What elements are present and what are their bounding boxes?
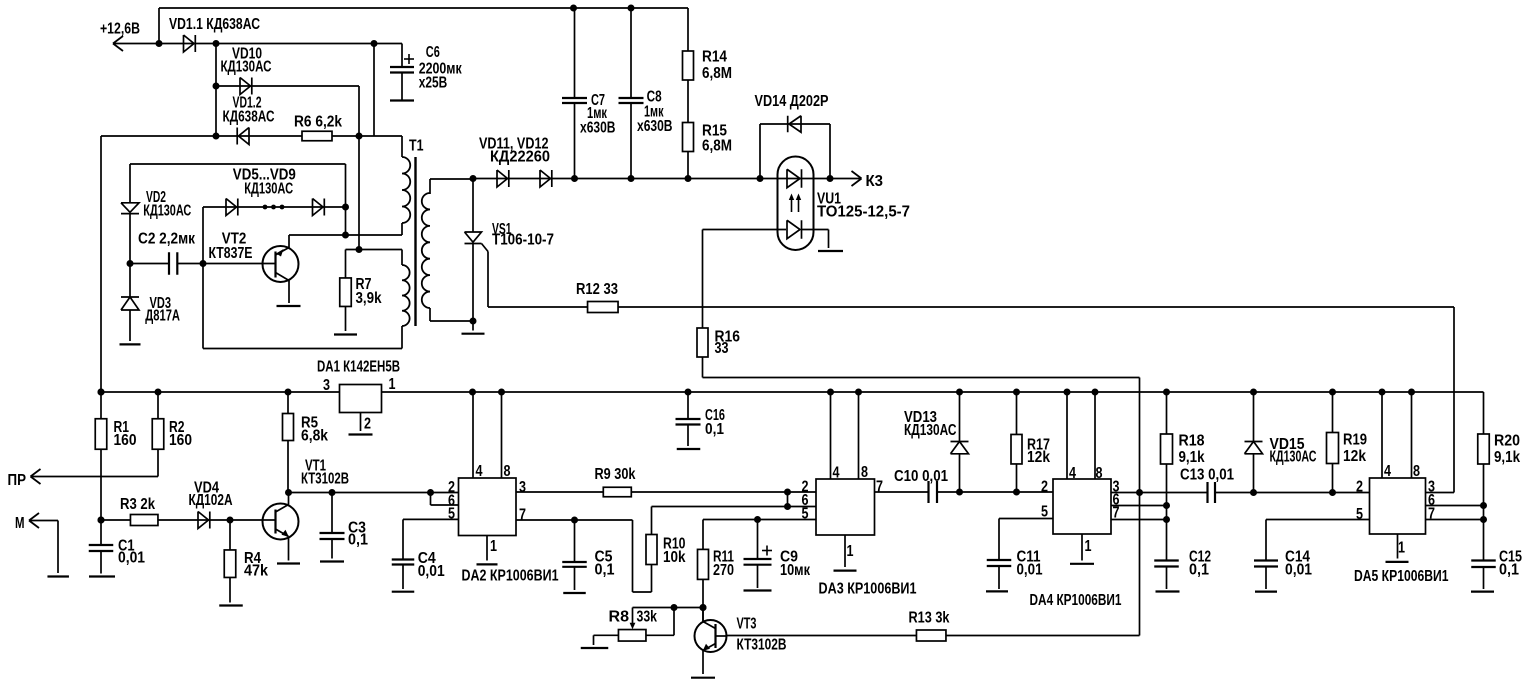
svg-text:R14: R14: [702, 49, 727, 66]
svg-text:С2 2,2мк: С2 2,2мк: [138, 231, 196, 248]
svg-text:VD14 Д202Р: VD14 Д202Р: [755, 93, 829, 110]
svg-text:0,1: 0,1: [595, 562, 615, 579]
svg-text:DA2 КР1006ВИ1: DA2 КР1006ВИ1: [462, 568, 559, 585]
svg-text:С6: С6: [426, 44, 440, 61]
svg-text:Т106-10-7: Т106-10-7: [492, 232, 554, 249]
svg-text:КД22260: КД22260: [490, 149, 550, 166]
svg-text:R13 3k: R13 3k: [909, 610, 950, 627]
svg-text:VD1.1 КД638АС: VD1.1 КД638АС: [169, 16, 260, 33]
svg-text:1: 1: [490, 538, 497, 555]
svg-text:8: 8: [1413, 463, 1420, 480]
svg-text:КТ837Е: КТ837Е: [209, 245, 253, 262]
svg-text:160: 160: [114, 432, 137, 449]
svg-text:2: 2: [1041, 479, 1048, 496]
svg-text:КД130АС: КД130АС: [904, 422, 957, 439]
svg-text:С10 0,01: С10 0,01: [894, 468, 948, 485]
svg-text:DA5 КР1006ВИ1: DA5 КР1006ВИ1: [1354, 568, 1449, 585]
svg-text:3,9k: 3,9k: [356, 290, 382, 307]
svg-text:5: 5: [802, 506, 809, 523]
svg-text:47k: 47k: [244, 563, 268, 580]
svg-text:7: 7: [876, 479, 883, 496]
svg-text:х630В: х630В: [637, 118, 673, 135]
svg-text:4: 4: [1069, 465, 1076, 482]
svg-text:VT3: VT3: [737, 616, 757, 633]
svg-text:R6 6,2k: R6 6,2k: [294, 114, 342, 131]
svg-text:R18: R18: [1179, 433, 1205, 450]
svg-text:1: 1: [1398, 540, 1405, 557]
svg-text:1: 1: [389, 376, 396, 393]
svg-text:1: 1: [847, 543, 854, 560]
svg-text:КД130АС: КД130АС: [1270, 449, 1317, 466]
svg-text:R3 2k: R3 2k: [120, 496, 155, 513]
svg-text:9,1k: 9,1k: [1179, 449, 1205, 466]
svg-text:ПР: ПР: [8, 472, 27, 489]
svg-text:8: 8: [504, 463, 511, 480]
svg-text:КД130АС: КД130АС: [221, 59, 272, 76]
svg-text:КД102А: КД102А: [189, 492, 233, 509]
svg-text:ТО125-12,5-7: ТО125-12,5-7: [817, 204, 910, 221]
svg-text:х630В: х630В: [580, 120, 616, 137]
svg-text:4: 4: [833, 465, 840, 482]
svg-text:0,1: 0,1: [1189, 562, 1209, 579]
svg-text:DA1 К142ЕН5В: DA1 К142ЕН5В: [317, 359, 400, 376]
svg-text:12k: 12k: [1343, 448, 1366, 465]
svg-text:9,1k: 9,1k: [1494, 449, 1520, 466]
svg-text:КД130АС: КД130АС: [244, 181, 293, 198]
svg-text:33k: 33k: [637, 609, 658, 626]
svg-text:+12,6В: +12,6В: [100, 21, 140, 38]
svg-text:0,1: 0,1: [348, 532, 368, 549]
svg-text:12k: 12k: [1027, 449, 1050, 466]
svg-text:х25В: х25В: [419, 75, 448, 92]
svg-text:160: 160: [169, 432, 192, 449]
svg-text:КД638АС: КД638АС: [223, 109, 275, 126]
svg-text:33: 33: [715, 340, 729, 357]
svg-text:М: М: [15, 515, 25, 532]
svg-text:R8: R8: [609, 609, 630, 626]
svg-text:0,01: 0,01: [418, 563, 445, 580]
svg-text:10k: 10k: [663, 549, 686, 566]
svg-text:4: 4: [476, 463, 483, 480]
svg-text:5: 5: [1356, 506, 1363, 523]
svg-text:КТ3102В: КТ3102В: [301, 471, 349, 488]
svg-text:1: 1: [1085, 538, 1092, 555]
svg-text:2: 2: [364, 416, 371, 433]
svg-text:0,01: 0,01: [118, 550, 145, 567]
svg-text:К3: К3: [866, 173, 884, 190]
svg-text:6,8М: 6,8М: [702, 65, 732, 82]
svg-text:КД130АС: КД130АС: [143, 203, 191, 220]
svg-text:3: 3: [323, 377, 330, 394]
svg-text:R20: R20: [1494, 433, 1520, 450]
svg-text:5: 5: [448, 505, 455, 522]
svg-text:Т1: Т1: [409, 138, 424, 155]
svg-text:6,8k: 6,8k: [301, 428, 328, 445]
svg-text:2: 2: [1356, 479, 1363, 496]
svg-text:С13 0,01: С13 0,01: [1180, 467, 1234, 484]
svg-text:Д817А: Д817А: [145, 308, 180, 325]
svg-text:7: 7: [519, 507, 526, 524]
svg-text:КТ3102В: КТ3102В: [737, 637, 787, 654]
svg-text:3: 3: [519, 479, 526, 496]
svg-text:0,1: 0,1: [1499, 562, 1519, 579]
svg-text:DA3 КР1006ВИ1: DA3 КР1006ВИ1: [819, 581, 917, 598]
svg-text:10мк: 10мк: [780, 562, 811, 579]
svg-text:6,8М: 6,8М: [702, 138, 732, 155]
svg-text:R19: R19: [1343, 432, 1367, 449]
svg-text:0,01: 0,01: [1285, 562, 1312, 579]
svg-text:0,1: 0,1: [705, 421, 724, 438]
svg-text:DA4 КР1006ВИ1: DA4 КР1006ВИ1: [1030, 592, 1122, 609]
svg-text:8: 8: [1096, 465, 1103, 482]
svg-text:4: 4: [1384, 463, 1391, 480]
svg-text:0,01: 0,01: [1017, 562, 1043, 579]
svg-text:270: 270: [713, 562, 734, 579]
svg-text:R9 30k: R9 30k: [595, 466, 636, 483]
svg-text:R12 33: R12 33: [576, 281, 618, 298]
svg-text:8: 8: [861, 464, 868, 481]
